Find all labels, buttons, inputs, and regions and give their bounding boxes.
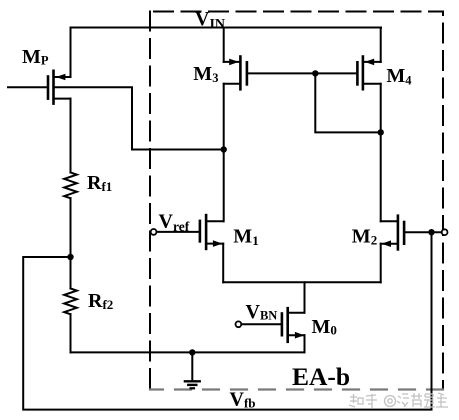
dashed box border EA-b left: [149, 12, 151, 389]
node M4 drain junction dot: [378, 129, 384, 135]
transistor M2 (NMOS input, gate on right): [381, 216, 404, 250]
resistor Rf2: [64, 289, 77, 315]
svg-text:Vfb: Vfb: [230, 389, 256, 411]
wire M4 drain column to M2 drain: [380, 84, 382, 221]
wire M1 source down to tail: [222, 244, 224, 283]
svg-text:MP: MP: [22, 46, 49, 68]
transistor M4 (PMOS diode-connected, gate on left): [357, 57, 380, 90]
wire M2 source down to tail: [380, 244, 382, 283]
node feedback junction dot: [428, 229, 434, 235]
wire M4 source to VIN rail: [380, 28, 382, 62]
node EA output junction dot: [221, 146, 227, 152]
wire M3 source to VIN rail: [223, 28, 225, 62]
wire M0 source to ground rail: [304, 335, 306, 352]
terminal Vref input circle: [151, 229, 157, 235]
svg-text:Rf1: Rf1: [87, 172, 112, 194]
wire tail rail: [223, 281, 381, 283]
wire VIN rail: [71, 27, 382, 29]
wire feedback loop (left, bottom, right up to output): [23, 232, 431, 410]
node gate tie junction dot: [312, 70, 318, 76]
node ground rail junction dot: [189, 349, 195, 355]
terminal VBN input circle: [236, 321, 242, 327]
wire Rf1 bottom to divider node: [70, 198, 72, 257]
wire MP gate input stub: [8, 86, 47, 88]
wire MP drain down to Rf1: [70, 99, 72, 173]
wire M3 gate to M4 gate: [248, 72, 356, 74]
svg-text:VBN: VBN: [246, 301, 278, 323]
wire M2 gate to feedback terminal: [405, 231, 441, 233]
transistor M3 (PMOS mirror, gate on right): [224, 57, 247, 90]
svg-text:Vref: Vref: [159, 211, 190, 235]
svg-text:M3: M3: [193, 63, 218, 85]
wire diode connection gates to M4 drain: [315, 73, 380, 132]
wire Rf2 bottom to ground rail: [70, 314, 72, 352]
wire ground rail: [71, 351, 305, 353]
dashed box border EA-b bottom: [150, 388, 443, 390]
svg-text:EA-b: EA-b: [292, 362, 350, 391]
svg-text:M1: M1: [233, 226, 258, 249]
wire MP source to VIN rail: [70, 28, 72, 78]
wire M3 drain column to M1 drain: [223, 84, 225, 221]
dashed box border EA-b top: [150, 11, 441, 13]
wire MP gate node to EA output node: [55, 87, 224, 149]
svg-text:M0: M0: [312, 316, 337, 338]
svg-text:M4: M4: [386, 65, 412, 87]
wire Vref to M1 gate: [157, 231, 199, 233]
watermark zhihu: [349, 393, 448, 408]
wire VBN to M0 gate: [241, 323, 280, 325]
dashed box border EA-b right: [442, 12, 444, 389]
wire tail to M0 drain: [304, 282, 306, 312]
svg-text:M2: M2: [352, 226, 377, 248]
ground symbol: [185, 352, 200, 388]
terminal output circle: [442, 229, 448, 235]
resistor Rf1: [64, 173, 77, 199]
wire Rf2 top: [70, 257, 72, 289]
transistor M1 (NMOS input, gate on left): [200, 215, 223, 249]
transistor M0 (NMOS tail current source): [282, 308, 305, 342]
node divider junction dot: [67, 254, 73, 260]
transistor MP (PMOS pass device): [48, 71, 71, 104]
svg-text:Rf2: Rf2: [88, 290, 113, 312]
